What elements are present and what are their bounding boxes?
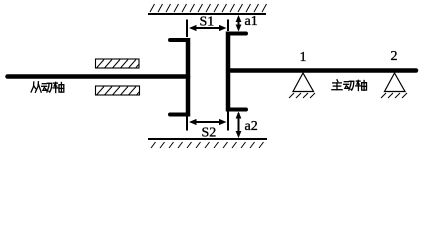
svg-text:a2: a2 xyxy=(245,119,258,134)
svg-text:1: 1 xyxy=(300,50,307,65)
glyph 动 xyxy=(42,83,52,92)
extension line left bottom xyxy=(186,117,188,131)
bearing block lower xyxy=(96,86,140,95)
bottom casing line xyxy=(148,138,267,140)
glyph 动 xyxy=(344,81,354,90)
glyph 轴 xyxy=(53,82,64,92)
extension line right bottom xyxy=(227,112,229,131)
dimension a2 arrow xyxy=(236,112,242,139)
driven shaft (left) xyxy=(8,74,189,79)
svg-text:2: 2 xyxy=(391,49,398,64)
svg-text:S1: S1 xyxy=(200,15,215,30)
top casing line xyxy=(148,13,266,15)
support 1 triangle xyxy=(289,73,315,98)
extension line left top xyxy=(186,20,188,38)
label 从动轴 (driven shaft) xyxy=(31,82,64,93)
driving shaft (right) xyxy=(230,68,416,73)
dimension S2 arrow xyxy=(189,119,227,125)
bearing block upper xyxy=(96,59,140,68)
right coupling hub flange xyxy=(228,32,246,112)
svg-text:a1: a1 xyxy=(245,14,258,29)
svg-text:S2: S2 xyxy=(202,126,217,141)
top casing hatching xyxy=(150,4,267,12)
dimension a1 arrow xyxy=(236,15,242,32)
glyph 从 xyxy=(31,82,41,93)
left coupling hub flange xyxy=(170,38,188,117)
extension line right top xyxy=(227,20,229,32)
support 2 triangle xyxy=(381,73,407,98)
dimension S1 arrow xyxy=(189,25,227,31)
bottom casing hatching xyxy=(151,142,264,148)
glyph 轴 xyxy=(356,80,367,90)
label 主动轴 (driving shaft) xyxy=(332,80,367,91)
glyph 主 xyxy=(332,80,342,90)
